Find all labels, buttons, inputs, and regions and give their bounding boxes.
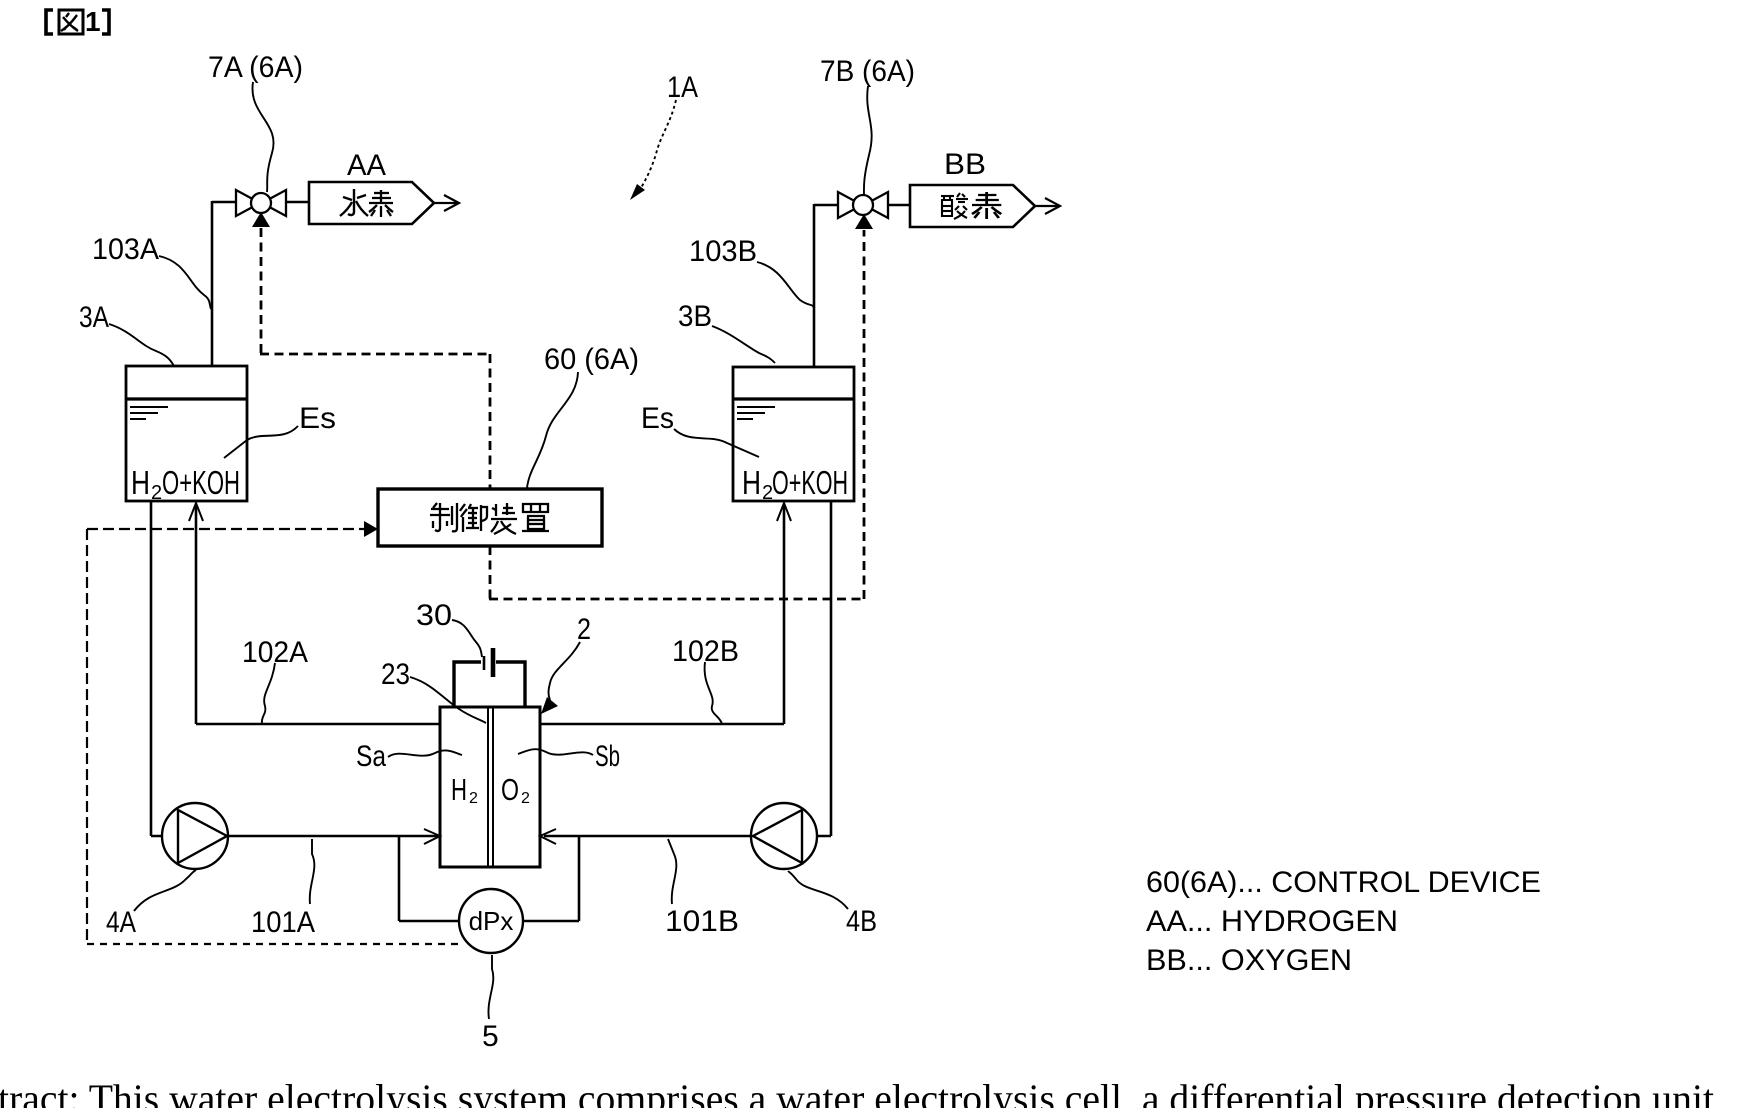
svg-text:30: 30 bbox=[416, 599, 452, 632]
svg-text:O+KOH: O+KOH bbox=[162, 464, 240, 501]
svg-text:Sb: Sb bbox=[595, 740, 620, 773]
svg-text:2: 2 bbox=[577, 613, 591, 646]
svg-text:Sa: Sa bbox=[356, 740, 386, 773]
svg-text:BB... OXYGEN: BB... OXYGEN bbox=[1146, 944, 1352, 977]
svg-text:103A: 103A bbox=[92, 233, 159, 266]
svg-text:60 (6A): 60 (6A) bbox=[544, 343, 639, 376]
svg-text:5: 5 bbox=[482, 1020, 499, 1053]
svg-text:101B: 101B bbox=[665, 905, 739, 938]
svg-text:4A: 4A bbox=[106, 906, 136, 939]
svg-text:tract: This water electrolysis: tract: This water electrolysis system co… bbox=[0, 1076, 1714, 1108]
svg-text:103B: 103B bbox=[689, 235, 757, 268]
svg-text:102B: 102B bbox=[672, 635, 739, 668]
svg-text:H: H bbox=[131, 464, 150, 501]
svg-text:3B: 3B bbox=[678, 300, 712, 333]
svg-text:7B (6A): 7B (6A) bbox=[820, 55, 915, 88]
svg-text:Es: Es bbox=[641, 402, 674, 435]
svg-text:BB: BB bbox=[944, 148, 986, 181]
svg-text:O: O bbox=[501, 772, 519, 807]
svg-text:3A: 3A bbox=[79, 301, 109, 334]
svg-text:102A: 102A bbox=[242, 636, 308, 669]
svg-text:23: 23 bbox=[381, 658, 410, 691]
svg-text:H: H bbox=[742, 464, 761, 501]
svg-text:101A: 101A bbox=[251, 906, 315, 939]
svg-text:Es: Es bbox=[299, 402, 336, 435]
svg-text:7A (6A): 7A (6A) bbox=[208, 51, 303, 84]
svg-text:2: 2 bbox=[521, 790, 530, 807]
svg-text:AA... HYDROGEN: AA... HYDROGEN bbox=[1146, 905, 1398, 938]
svg-text:dPx: dPx bbox=[469, 906, 514, 936]
svg-text:1: 1 bbox=[85, 6, 101, 37]
svg-text:2: 2 bbox=[151, 482, 162, 504]
svg-text:H: H bbox=[451, 772, 467, 807]
svg-text:1A: 1A bbox=[667, 71, 698, 104]
svg-text:O+KOH: O+KOH bbox=[772, 464, 848, 501]
svg-text:4B: 4B bbox=[846, 905, 877, 938]
svg-text:2: 2 bbox=[469, 790, 478, 807]
svg-text:AA: AA bbox=[347, 149, 386, 182]
svg-text:60(6A)... CONTROL DEVICE: 60(6A)... CONTROL DEVICE bbox=[1146, 866, 1541, 899]
